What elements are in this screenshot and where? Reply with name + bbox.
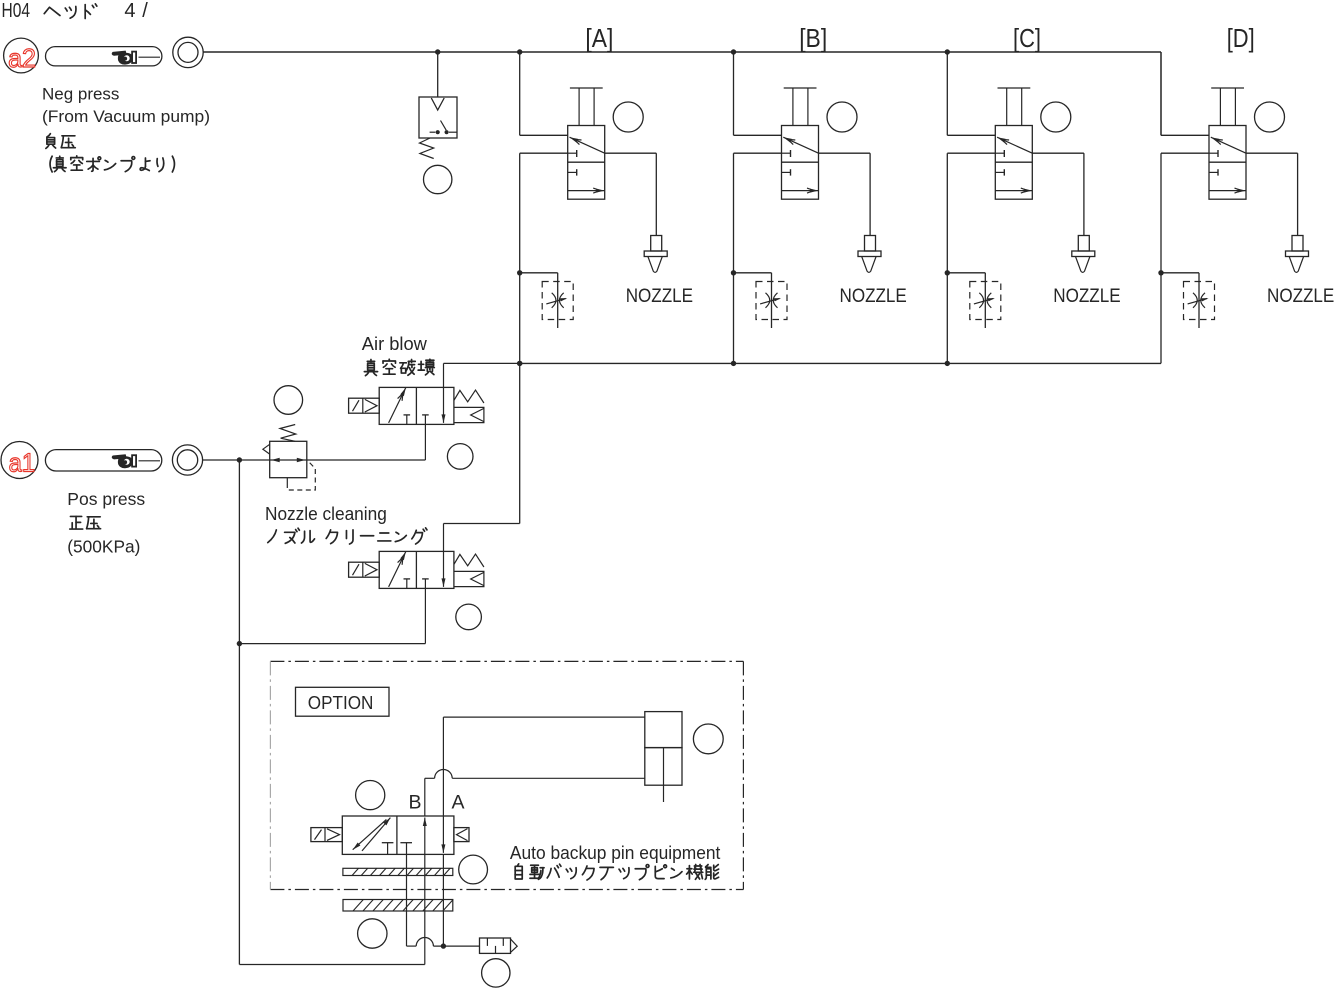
svg-text:NOZZLE: NOZZLE [840,286,907,307]
svg-text:NOZZLE: NOZZLE [626,286,693,307]
svg-text:NOZZLE: NOZZLE [1053,286,1120,307]
svg-text:[B]: [B] [799,23,827,53]
svg-text:[A]: [A] [585,23,613,53]
svg-text:Air blow: Air blow [362,334,428,354]
svg-text:/: / [142,0,148,22]
svg-text:B: B [409,792,422,814]
svg-text:Auto backup pin equipment: Auto backup pin equipment [510,842,721,863]
svg-text:NOZZLE: NOZZLE [1267,286,1334,307]
svg-text:OPTION: OPTION [308,692,374,713]
svg-text:H04: H04 [2,0,31,22]
svg-text:A: A [452,792,465,814]
svg-text:Nozzle cleaning: Nozzle cleaning [265,503,387,524]
svg-text:[D]: [D] [1227,23,1255,53]
svg-text:Pos press: Pos press [67,489,145,509]
svg-text:Neg press: Neg press [42,84,119,103]
svg-text:4: 4 [124,0,135,22]
svg-text:a2: a2 [8,43,36,73]
svg-text:(500KPa): (500KPa) [67,537,140,557]
svg-text:a1: a1 [9,448,35,478]
svg-text:(From Vacuum pump): (From Vacuum pump) [42,107,210,126]
svg-text:[C]: [C] [1013,23,1041,53]
